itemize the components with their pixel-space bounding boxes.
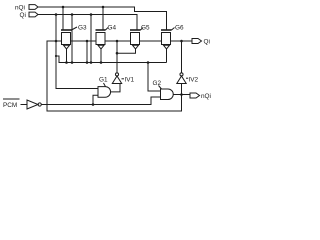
output port Qi (192, 39, 202, 44)
wire Qi drop x72 (71, 15, 73, 63)
and gate G1 (98, 83, 111, 97)
wire Qi drop x91 (90, 15, 92, 63)
inverter IV1 (112, 73, 124, 84)
input port Qi (29, 12, 38, 17)
output port nQi (190, 93, 200, 98)
wire G4 triangle stem (100, 49, 102, 63)
and gate G2 (159, 86, 174, 100)
svg-text:nQi: nQi (201, 93, 211, 100)
svg-text:nQi: nQi (15, 4, 25, 11)
wire IV1 output riser (116, 41, 118, 73)
PCM overline (3, 98, 20, 100)
wire node drop x87 (86, 41, 88, 63)
junction dots (55, 6, 183, 106)
wire G5.R to G6.L pin (140, 40, 162, 42)
svg-text:G2: G2 (153, 80, 162, 87)
svg-text:Qi: Qi (204, 39, 210, 46)
wire G2 output to nQi port (174, 94, 191, 96)
svg-text:IV2: IV2 (189, 76, 199, 83)
svg-text:Qi: Qi (20, 12, 26, 19)
wire rail to G2 upper input (148, 63, 160, 92)
wire G3.R to G4.L pin (71, 40, 97, 42)
wire G6.R to Qi output (171, 40, 193, 42)
svg-text:G6: G6 (175, 24, 184, 31)
transmission gate G3 (61, 27, 77, 49)
transmission gate G4 (96, 28, 109, 50)
transmission gate G5 (130, 28, 143, 50)
wire PCM branch to G1 lower input (93, 95, 98, 104)
wire feedback to G3 input pin (47, 41, 182, 111)
svg-text:IV1: IV1 (125, 76, 135, 83)
wire V1 Qi to G1 (56, 15, 98, 89)
wire G3 triangle stem (66, 49, 68, 63)
wire G4 gate stem (102, 7, 104, 30)
wire G4.R to G5.L pin (105, 40, 131, 42)
wire IV2 output riser (181, 41, 183, 73)
wire control rail y62.5 (56, 56, 167, 63)
inverter IV2 (177, 73, 188, 84)
svg-text:G4: G4 (108, 24, 117, 31)
wire G1 output to IV1 input (111, 84, 120, 92)
svg-text:PCM: PCM (3, 102, 17, 109)
svg-text:G3: G3 (78, 24, 87, 31)
svg-text:G5: G5 (141, 24, 150, 31)
transmission gate G6 (161, 28, 175, 50)
svg-text:G1: G1 (99, 76, 108, 83)
wire Qi rail (38, 15, 137, 31)
wire PCM rail (41, 97, 160, 105)
wire nQi rail (38, 7, 167, 30)
wire IV2 input from G2 output (181, 84, 183, 95)
wire G3 gate stem (62, 7, 64, 30)
wire G5 triangle stem to IV1 node (117, 49, 136, 53)
input port nQi (29, 5, 38, 10)
wire G6 triangle stem joins rail end (166, 49, 168, 63)
input buffer PCM (21, 100, 42, 109)
